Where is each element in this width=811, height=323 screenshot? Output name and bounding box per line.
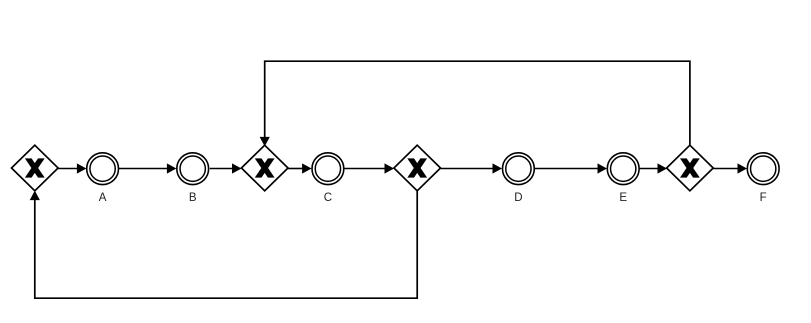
wire C to G3	[344, 163, 394, 173]
svg-text:C: C	[324, 192, 332, 204]
event D	[503, 153, 535, 204]
gateway G2 (exclusive X)	[241, 145, 288, 191]
wire A to B	[119, 163, 176, 173]
wire G3 to D	[440, 163, 502, 173]
svg-text:F: F	[760, 192, 767, 204]
wire G2 to C	[288, 163, 312, 173]
wire B to G2	[210, 163, 242, 173]
wire bottom-loop G3 to G1	[30, 190, 418, 298]
wire E to G4	[640, 163, 667, 173]
gateway G1 (exclusive X)	[12, 145, 59, 191]
svg-text:B: B	[189, 192, 197, 204]
svg-text:E: E	[619, 192, 627, 204]
wire D to E	[535, 163, 607, 173]
wire G1 to A	[58, 163, 86, 173]
event E	[607, 153, 639, 204]
event F	[747, 153, 779, 204]
gateway G4 (exclusive X)	[667, 145, 714, 191]
event A	[87, 153, 119, 204]
wire top-loop G4 to G2	[260, 61, 690, 146]
svg-text:A: A	[99, 192, 107, 204]
svg-text:D: D	[514, 192, 522, 204]
wire G4 to F	[713, 163, 747, 173]
gateway G3 (exclusive X)	[394, 145, 441, 191]
event B	[177, 153, 209, 204]
event C	[312, 153, 344, 204]
